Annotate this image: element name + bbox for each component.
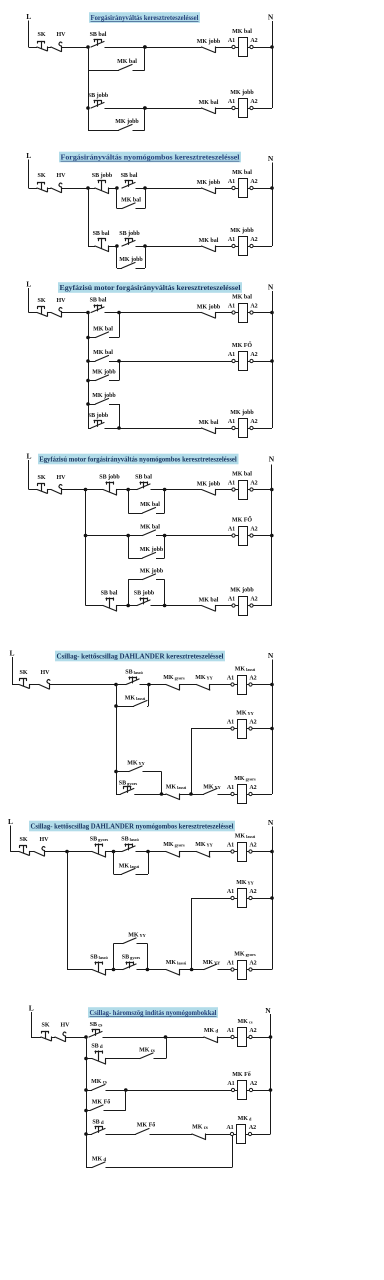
contact MK cs (NO) <box>92 1085 105 1091</box>
contact MK lassú (NO self-hold) <box>122 869 135 875</box>
coil MK Fő <box>235 1090 238 1092</box>
wire <box>116 246 118 268</box>
coil MK gyors A1 terminal <box>231 792 234 795</box>
contact MK bal (NC interlock) <box>202 606 216 612</box>
N rail <box>272 291 274 428</box>
svg-text:SB d: SB d <box>91 1044 103 1051</box>
breaker HV <box>51 490 61 495</box>
junction <box>84 1088 88 1092</box>
circuit 1: reversing starter with contactor cross-interlock <box>26 12 274 131</box>
junction <box>126 604 130 608</box>
coil MK jobb <box>235 108 238 110</box>
svg-text:SB bal: SB bal <box>135 475 152 481</box>
svg-text:MK jobb: MK jobb <box>140 547 164 553</box>
wire <box>210 684 232 686</box>
svg-text:Csillag- kettőscsillag DAHLAND: Csillag- kettőscsillag DAHLANDER kereszt… <box>57 652 224 661</box>
svg-text:A2: A2 <box>249 785 256 791</box>
svg-text:N: N <box>268 13 274 22</box>
svg-text:N: N <box>268 818 274 827</box>
svg-text:MK bal: MK bal <box>140 502 160 508</box>
coil MK bal A2 terminal <box>247 47 250 49</box>
svg-text:Egyfázisú motor forgásirányvál: Egyfázisú motor forgásirányváltás nyomóg… <box>39 455 237 464</box>
node X junction <box>86 45 90 49</box>
junction <box>164 1035 168 1039</box>
junction <box>86 336 90 340</box>
wire <box>106 851 114 853</box>
coil MK gyors <box>234 969 237 971</box>
wire <box>117 208 122 210</box>
title: Forgásirányváltás keresztreteszeléssel <box>89 12 200 23</box>
wire <box>148 852 150 875</box>
svg-text:MK jobb: MK jobb <box>197 482 221 488</box>
svg-text:HV: HV <box>57 475 67 481</box>
coil MK lassú <box>234 851 237 853</box>
svg-text:MK YY: MK YY <box>236 880 254 886</box>
coil MK jobb <box>235 428 238 430</box>
coil MK YY A2 terminal <box>246 898 249 900</box>
pushbutton SB gyors (NO) <box>121 789 134 795</box>
wire <box>252 1134 271 1136</box>
coil MK d <box>234 1134 237 1136</box>
wire <box>215 605 232 607</box>
svg-text:MK jobb: MK jobb <box>230 588 254 594</box>
pushbutton SB bal (NC) <box>103 606 117 612</box>
contact MK d (NC interlock) <box>204 1037 218 1043</box>
wire <box>252 1037 270 1039</box>
circuit 6: Dahlander two-speed starter with pushbutton interlock <box>8 817 274 980</box>
wire <box>252 898 272 900</box>
wire <box>29 47 38 49</box>
svg-text:A1: A1 <box>227 960 234 966</box>
svg-text:A1: A1 <box>227 785 234 791</box>
svg-text:A2: A2 <box>250 419 257 425</box>
wire <box>218 794 232 796</box>
wire <box>29 684 39 686</box>
breaker HV <box>51 313 61 318</box>
svg-text:MK d: MK d <box>204 1028 219 1035</box>
contact MK bal (NO self-hold) <box>96 332 109 338</box>
junction <box>86 359 90 363</box>
wire <box>47 188 51 190</box>
wire <box>253 605 271 607</box>
wire <box>128 580 130 606</box>
wire <box>106 1134 137 1136</box>
junction <box>112 850 116 854</box>
wire <box>109 188 117 190</box>
svg-text:A2: A2 <box>250 1081 257 1087</box>
junction <box>269 1035 273 1039</box>
wire <box>156 513 165 515</box>
L rail <box>28 288 30 313</box>
wire <box>215 108 232 110</box>
wire <box>105 47 202 49</box>
pushbutton SB bal (NC) <box>95 246 109 252</box>
wire <box>106 1167 233 1169</box>
svg-text:Forgásirányváltás keresztretes: Forgásirányváltás keresztreteszeléssel <box>91 13 199 22</box>
svg-text:A2: A2 <box>250 352 257 358</box>
junction <box>163 488 167 492</box>
svg-text:A1: A1 <box>226 1125 233 1131</box>
svg-text:A2: A2 <box>249 1028 256 1034</box>
svg-text:HV: HV <box>57 173 67 179</box>
coil MK bal <box>235 188 238 190</box>
coil MK YY <box>234 728 237 730</box>
wire <box>137 969 167 971</box>
wire <box>88 428 91 430</box>
svg-text:MK jobb: MK jobb <box>230 410 254 416</box>
junction <box>143 244 147 248</box>
svg-text:A2: A2 <box>250 38 257 44</box>
node X junction <box>84 1035 88 1039</box>
svg-text:A1: A1 <box>227 1081 234 1087</box>
wire <box>253 535 271 537</box>
wire <box>88 130 119 132</box>
wire <box>128 579 142 581</box>
node X junction <box>86 311 90 315</box>
svg-text:MK YY: MK YY <box>236 711 254 717</box>
wire <box>253 312 272 314</box>
wire <box>128 558 142 560</box>
coil MK d A1 terminal <box>230 1132 233 1135</box>
wire <box>147 944 149 970</box>
svg-text:HV: HV <box>57 32 67 38</box>
wire <box>133 70 145 72</box>
svg-text:MK bal: MK bal <box>199 238 219 244</box>
svg-text:A2: A2 <box>250 99 257 105</box>
wire <box>88 404 96 406</box>
wire <box>88 361 96 363</box>
wire <box>67 969 92 971</box>
svg-text:SB bal: SB bal <box>90 32 107 38</box>
wire <box>116 188 118 209</box>
svg-text:SB jobb: SB jobb <box>92 173 113 179</box>
wire <box>144 47 146 70</box>
wire <box>215 246 232 248</box>
wire <box>192 898 232 900</box>
title: Csillag- háromszög indítás nyomógombokkal <box>88 1007 218 1018</box>
junction <box>147 683 151 687</box>
wire <box>140 684 166 686</box>
wire <box>191 728 232 730</box>
wire <box>145 246 147 268</box>
node X junction <box>86 186 90 190</box>
coil MK YY A1 terminal <box>231 896 234 899</box>
pushbutton SB lassú (NO) <box>126 679 139 685</box>
branch vertical from node X <box>85 490 87 606</box>
coil MK FŐ A2 terminal <box>247 361 250 363</box>
junction <box>143 45 147 49</box>
svg-text:MK bal: MK bal <box>232 170 252 176</box>
wire <box>148 685 150 707</box>
svg-text:MK YY: MK YY <box>127 761 145 767</box>
svg-text:A1: A1 <box>228 99 235 105</box>
coil MK jobb A1 terminal <box>232 426 235 429</box>
svg-text:SB bal: SB bal <box>90 298 107 304</box>
wire <box>114 851 123 853</box>
wire <box>136 874 149 876</box>
svg-text:SB jobb: SB jobb <box>119 231 140 237</box>
coil MK gyors A1 terminal <box>231 968 234 971</box>
wire <box>128 536 130 559</box>
coil MK lassú <box>234 684 237 686</box>
junction <box>270 683 274 687</box>
wire <box>128 490 130 514</box>
wire <box>180 794 205 796</box>
svg-text:A1: A1 <box>228 596 235 602</box>
contact MK gyors (NC interlock) <box>166 685 180 691</box>
svg-text:SB bal: SB bal <box>93 231 110 237</box>
svg-text:A1: A1 <box>227 719 234 725</box>
wire <box>116 706 134 708</box>
wire <box>253 188 272 190</box>
wire <box>51 1037 55 1039</box>
junction <box>115 244 119 248</box>
wire <box>12 684 19 686</box>
contact MK YY (NO) <box>204 789 217 795</box>
circuit 5: Dahlander two-speed starter with contactor interlock <box>9 649 273 804</box>
svg-text:MK bal: MK bal <box>121 198 141 204</box>
svg-text:Csillag- kettőscsillag DAHLAND: Csillag- kettőscsillag DAHLANDER nyomógo… <box>31 822 234 831</box>
wire <box>125 1090 127 1111</box>
wire <box>61 312 88 314</box>
junction <box>190 968 194 972</box>
switch SK <box>37 188 47 192</box>
coil MK bal <box>235 312 238 314</box>
svg-text:L: L <box>29 1004 34 1013</box>
junction <box>86 379 90 383</box>
coil MK FŐ A1 terminal <box>232 359 235 362</box>
wire <box>105 312 202 314</box>
coil MK bal A1 terminal <box>232 45 235 48</box>
svg-text:SB lassú: SB lassú <box>125 670 143 676</box>
contact MK bal (NO self-hold) <box>119 65 132 71</box>
coil MK gyors A2 terminal <box>246 969 249 971</box>
junction <box>270 359 274 363</box>
svg-text:L: L <box>9 649 14 658</box>
wire <box>86 535 143 537</box>
svg-text:A1: A1 <box>228 480 235 486</box>
wire <box>252 684 272 686</box>
svg-text:A1: A1 <box>228 303 235 309</box>
svg-text:SK: SK <box>37 475 45 481</box>
svg-text:N: N <box>268 154 274 163</box>
coil MK jobb A2 terminal <box>247 428 250 430</box>
junction <box>117 426 121 430</box>
wire <box>136 851 166 853</box>
wire <box>210 851 232 853</box>
wire <box>252 728 272 730</box>
junction <box>270 534 274 538</box>
wire <box>156 579 165 581</box>
svg-text:MK Fő: MK Fő <box>137 1123 156 1129</box>
N rail <box>272 21 274 108</box>
svg-text:MK cs: MK cs <box>139 1048 155 1055</box>
coil MK Fő A1 terminal <box>231 1088 234 1091</box>
wire <box>29 188 38 190</box>
contact MK YY (NC interlock) <box>196 685 210 691</box>
wire <box>61 188 88 190</box>
svg-text:SB cs: SB cs <box>90 1022 103 1029</box>
wire <box>253 246 272 248</box>
svg-text:MK jobb: MK jobb <box>92 393 116 399</box>
svg-text:SB d: SB d <box>92 1120 104 1127</box>
wire <box>67 851 92 853</box>
svg-text:SK: SK <box>37 173 45 179</box>
junction <box>146 968 150 972</box>
wire <box>65 1037 86 1039</box>
contact MK bal (NO) <box>143 530 156 536</box>
pushbutton SB bal (NO) <box>91 307 104 313</box>
wire <box>253 489 271 491</box>
svg-text:A1: A1 <box>228 352 235 358</box>
circuit 3: single-phase motor reversing with contactor interlock <box>26 280 274 438</box>
svg-text:A2: A2 <box>249 1125 256 1131</box>
pushbutton SB jobb (NC) <box>103 490 117 496</box>
coil MK d A2 terminal <box>246 1134 249 1136</box>
wire <box>150 1134 193 1136</box>
wire <box>252 969 272 971</box>
junction <box>117 359 121 363</box>
coil MK lassú A1 terminal <box>231 683 234 686</box>
coil MK cs <box>234 1037 237 1039</box>
wire <box>252 794 272 796</box>
wire <box>86 605 104 607</box>
wire <box>29 489 37 491</box>
svg-text:A1: A1 <box>228 38 235 44</box>
wire <box>109 380 119 382</box>
wire <box>86 1090 92 1092</box>
coil MK jobb A1 terminal <box>232 604 235 607</box>
wire <box>215 428 232 430</box>
contact MK jobb (NO) <box>96 375 109 381</box>
wire <box>104 1110 126 1112</box>
junction <box>84 1109 88 1113</box>
branch vertical from node X <box>116 685 118 795</box>
coil MK YY <box>234 898 237 900</box>
wire <box>136 246 202 248</box>
wire <box>144 108 146 130</box>
coil MK jobb A1 terminal <box>232 244 235 247</box>
junction <box>112 968 116 972</box>
junction <box>143 186 147 190</box>
contact MK jobb (NC interlock) <box>202 47 216 53</box>
junction <box>270 45 274 49</box>
svg-text:SK: SK <box>19 670 27 676</box>
coil MK YY A2 terminal <box>246 728 249 730</box>
coil MK bal A2 terminal <box>247 489 250 491</box>
coil MK bal A2 terminal <box>247 188 250 190</box>
coil MK YY A1 terminal <box>231 727 234 730</box>
wire <box>253 428 272 430</box>
svg-text:MK bal: MK bal <box>93 350 113 356</box>
coil MK bal A1 terminal <box>232 186 235 189</box>
junction <box>270 850 274 854</box>
svg-text:L: L <box>26 12 31 21</box>
branch vertical from node X <box>86 1037 88 1168</box>
title: Egyfázisú motor forgásirányváltás nyomógombos keresztreteszeléssel <box>38 454 239 465</box>
wire <box>109 337 119 339</box>
wire <box>151 605 202 607</box>
wire <box>116 794 121 796</box>
pushbutton SB jobb (NO) <box>91 103 104 109</box>
contact MK YY (NC interlock) <box>196 852 210 858</box>
switch SK <box>37 313 47 317</box>
svg-text:SK: SK <box>19 837 27 843</box>
svg-text:MK FŐ: MK FŐ <box>232 341 252 349</box>
svg-text:MK lassú: MK lassú <box>166 960 187 966</box>
wire <box>232 1136 234 1168</box>
wire <box>88 188 95 190</box>
wire <box>180 969 205 971</box>
wire <box>253 361 272 363</box>
junction <box>86 402 90 406</box>
pushbutton SB lassú (NC) <box>92 970 106 976</box>
coil MK cs A2 terminal <box>246 1037 249 1039</box>
pushbutton SB jobb (NO) <box>91 423 104 429</box>
svg-text:A2: A2 <box>249 889 256 895</box>
wire <box>164 490 166 514</box>
svg-text:MK bal: MK bal <box>232 472 252 478</box>
wire <box>113 852 115 875</box>
pushbutton SB bal (NO) <box>137 484 150 490</box>
wire <box>88 246 95 248</box>
svg-text:A2: A2 <box>250 526 257 532</box>
contact MK Fő (NO) <box>90 1105 103 1111</box>
wire <box>103 1037 205 1039</box>
wire <box>179 851 196 853</box>
svg-text:MK jobb: MK jobb <box>140 569 164 575</box>
vertical feed to MK YY coil <box>191 729 193 795</box>
wire <box>218 1037 231 1039</box>
junction <box>84 1132 88 1136</box>
coil MK bal <box>235 47 238 49</box>
svg-text:MK bal: MK bal <box>140 525 160 531</box>
wire <box>47 489 51 491</box>
coil MK bal A1 terminal <box>232 488 235 491</box>
wire <box>145 188 147 209</box>
svg-text:SB gyors: SB gyors <box>119 781 138 787</box>
svg-text:SB jobb: SB jobb <box>99 475 120 481</box>
pushbutton SB d (NO) <box>92 1129 105 1135</box>
junction <box>126 534 130 538</box>
contact MK YY (NO) <box>204 964 217 970</box>
junction <box>269 1088 273 1092</box>
svg-text:MK lassú: MK lassú <box>166 785 187 791</box>
svg-text:N: N <box>268 651 274 660</box>
svg-text:A2: A2 <box>249 675 256 681</box>
svg-text:L: L <box>26 452 31 461</box>
svg-text:SB lassú: SB lassú <box>121 837 139 843</box>
wire <box>252 851 272 853</box>
wire <box>137 943 148 945</box>
svg-text:MK YY: MK YY <box>195 842 213 848</box>
contact MK bal (NC interlock) <box>202 246 216 252</box>
svg-text:MK cs: MK cs <box>238 1019 253 1025</box>
wire <box>86 1134 92 1136</box>
svg-text:MK jobb: MK jobb <box>92 370 116 376</box>
junction <box>270 186 274 190</box>
wire <box>218 969 232 971</box>
junction <box>270 896 274 900</box>
coil MK Fő A2 terminal <box>247 1090 250 1092</box>
contact MK jobb (NO self-hold) <box>96 399 109 405</box>
svg-text:MK cs: MK cs <box>91 1079 107 1086</box>
title: Csillag- kettőscsillag DAHLANDER keresztreteszeléssel <box>55 651 225 662</box>
coil MK jobb A2 terminal <box>247 605 250 607</box>
contact MK lassú (NC interlock) <box>166 970 180 976</box>
svg-text:N: N <box>269 455 275 464</box>
wire <box>114 969 124 971</box>
